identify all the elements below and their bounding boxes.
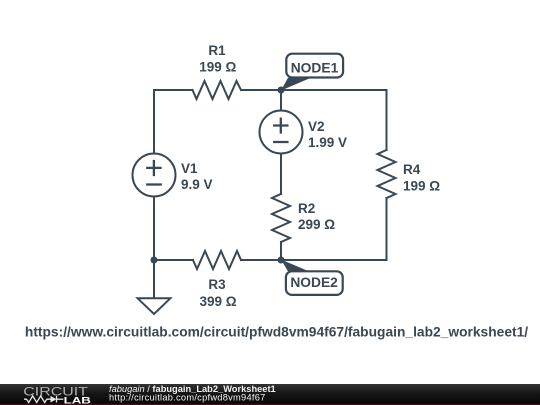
resistor R1 body [193,81,242,99]
V1 plus sign [147,161,160,175]
svg-text:V1: V1 [181,161,198,176]
voltage source V2 body [260,111,303,154]
svg-text:NODE1: NODE1 [291,60,339,75]
wire middle vertical middle [280,154,282,195]
voltage source V1 body [133,154,176,197]
wire left vertical upper [153,90,155,154]
svg-text:https://www.circuitlab.com/cir: https://www.circuitlab.com/circuit/pfwd8… [25,324,528,339]
svg-text:http://circuitlab.com/cpfwd8vm: http://circuitlab.com/cpfwd8vm94f67 [109,393,266,403]
svg-text:R3: R3 [208,277,226,292]
svg-text:299 Ω: 299 Ω [298,217,335,232]
junction node at NODE1 [278,87,285,94]
wire left vertical lower [153,197,155,261]
resistor R3 body [193,251,241,269]
wire ground stub [153,260,155,298]
svg-text:R4: R4 [403,162,421,177]
svg-text:199 Ω: 199 Ω [199,60,236,75]
junction node at NODE2 [278,257,285,264]
wire middle vertical upper [280,90,282,111]
wire top-left horizontal [154,89,193,91]
V2 plus sign [274,119,287,133]
V2 minus sign [274,141,287,143]
svg-text:9.9 V: 9.9 V [181,177,213,192]
footer bar [0,384,540,405]
junction node at ground [151,257,158,264]
svg-text:399 Ω: 399 Ω [199,294,236,309]
svg-text:199 Ω: 199 Ω [403,179,440,194]
V1 minus sign [147,183,160,185]
svg-text:NODE2: NODE2 [290,275,338,290]
wire right vertical upper [386,90,388,150]
wire middle vertical lower [280,242,282,260]
logo resistor-diode glyph [24,396,63,403]
svg-text:LAB: LAB [64,395,91,405]
ground [138,298,171,314]
svg-text:1.99 V: 1.99 V [308,135,347,150]
resistor R4 body [378,150,396,198]
wire right vertical lower [386,198,388,260]
wire bottom-left horizontal [154,259,193,261]
wire top-right horizontal [241,89,387,91]
node NODE1 callout [281,54,343,91]
svg-text:R2: R2 [298,201,315,216]
resistor R2 body [272,194,290,242]
wire bottom-right horizontal [241,259,387,261]
svg-text:V2: V2 [308,119,325,134]
node NODE2 callout [281,260,343,295]
svg-text:R1: R1 [208,43,226,58]
